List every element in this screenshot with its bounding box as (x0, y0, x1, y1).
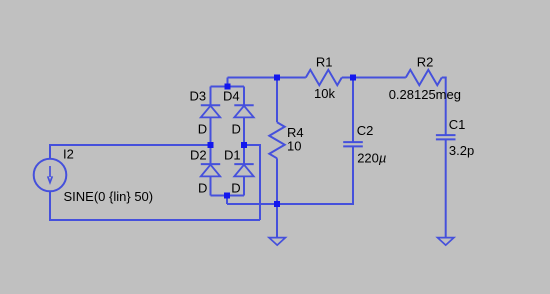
node junction bridge left midpoint (208, 142, 214, 148)
svg-text:D: D (231, 180, 240, 195)
wire bridge bottom jog (226, 195, 228, 205)
ground symbol left (269, 238, 285, 246)
svg-text:0.28125meg: 0.28125meg (389, 87, 461, 102)
capacitor C1 symbol (436, 135, 456, 139)
capacitor C2 symbol (343, 142, 363, 146)
diode D1 symbol (234, 164, 253, 176)
wire I2 top stub (49, 145, 51, 159)
node junction C2 top (350, 75, 356, 81)
svg-text:220µ: 220µ (357, 151, 386, 166)
wire ground stem left (276, 204, 278, 238)
node junction bridge right midpoint (241, 142, 247, 148)
svg-text:D: D (198, 180, 207, 195)
wire bottom rail (50, 219, 260, 220)
svg-text:SINE(0 {lin} 50): SINE(0 {lin} 50) (64, 189, 154, 204)
ground symbol right (438, 238, 454, 246)
current source I2 symbol (34, 159, 67, 192)
wire rail R1 to R2 (342, 77, 406, 79)
diode D3 symbol (201, 105, 220, 117)
wire D3 leads (210, 87, 212, 106)
wire bridge bottom bar (211, 195, 245, 197)
wire D1 leads (243, 145, 245, 164)
svg-text:C2: C2 (357, 123, 374, 138)
svg-text:D: D (232, 122, 241, 137)
svg-text:D1: D1 (224, 148, 241, 163)
wire bridge top bar (211, 86, 245, 88)
wire I2 bottom stub (49, 191, 51, 220)
diode D2 symbol (201, 164, 220, 176)
wire top rail to R1 (228, 77, 306, 79)
wire D4 leads (243, 87, 245, 106)
wire C2 top lead (352, 78, 354, 143)
node junction ground rail (274, 201, 280, 207)
resistor R1 symbol (306, 70, 342, 85)
node junction R4 top (274, 75, 280, 81)
diode D4 symbol (234, 105, 253, 117)
svg-text:D3: D3 (190, 89, 207, 104)
svg-text:10: 10 (287, 139, 301, 154)
wire mid bottom rail (227, 203, 353, 205)
svg-text:C1: C1 (449, 117, 466, 132)
svg-text:R2: R2 (417, 54, 434, 69)
wire C2 bottom lead (352, 146, 353, 204)
svg-text:D4: D4 (223, 89, 240, 104)
svg-text:I2: I2 (63, 147, 74, 162)
svg-text:10k: 10k (314, 86, 335, 101)
wire I2 top horizontal to bridge left midpoint (50, 145, 211, 146)
resistor R4 symbol (269, 122, 284, 158)
wire right vertical return (259, 145, 261, 220)
wire C1 top lead (445, 78, 447, 136)
wire jog bridge right midpoint (244, 144, 261, 146)
wire R2 to corner (442, 77, 446, 80)
svg-text:3.2p: 3.2p (449, 143, 474, 158)
node junction bridge bottom (224, 193, 230, 199)
resistor R2 symbol (406, 70, 442, 85)
svg-text:R1: R1 (316, 54, 333, 69)
wire C1 bottom lead (445, 139, 447, 237)
svg-text:D: D (198, 122, 207, 137)
node junction bridge top (225, 84, 231, 90)
wire bridge top jog up (227, 78, 229, 88)
wire R4 top lead (276, 78, 278, 123)
svg-text:D2: D2 (190, 148, 207, 163)
wire R4 bottom lead (276, 158, 278, 204)
wire D2 leads (210, 145, 212, 164)
